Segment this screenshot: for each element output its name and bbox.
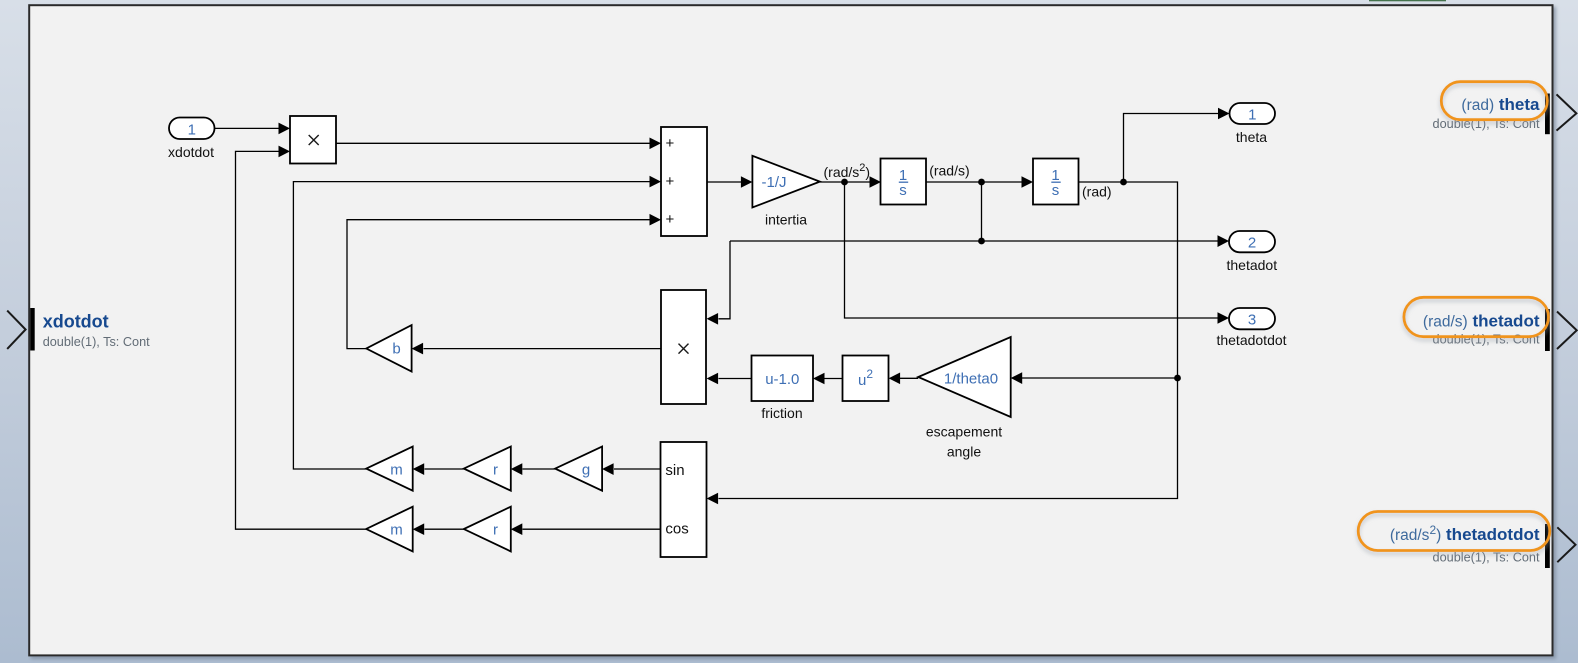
arrowhead into outport 1: [1218, 108, 1230, 120]
wire: thetadot branch down: [981, 182, 983, 241]
left port marker bar xdotdot: [30, 308, 35, 351]
right port chevron theta: [1557, 94, 1577, 130]
svg-text:1/theta0: 1/theta0: [944, 371, 998, 388]
gain r: [464, 447, 511, 491]
svg-text:xdotdot: xdotdot: [43, 312, 109, 332]
arrowhead into m gain: [413, 463, 425, 475]
wire: cos-m feedback up to product input 2: [236, 151, 367, 529]
svg-text:g: g: [582, 461, 590, 478]
svg-text:(rad) theta: (rad) theta: [1461, 95, 1540, 114]
right annotation thetadotdot: [1390, 523, 1540, 565]
wire: thetadot down-left into lower product top input: [719, 241, 731, 319]
outport 2 thetadot: [1229, 231, 1275, 252]
svg-text:(rad/s) thetadot: (rad/s) thetadot: [1423, 311, 1540, 330]
wire: integrator 2 to corner and down: [719, 182, 1178, 499]
svg-text:1: 1: [1248, 107, 1256, 124]
label escapement angle: [926, 424, 1002, 460]
right port bar thetadot: [1545, 309, 1550, 351]
svg-text:sin: sin: [665, 462, 684, 479]
orange ellipse theta: [1441, 82, 1547, 120]
wire: thetadot row to outport 2: [730, 240, 1218, 242]
svg-text:double(1), Ts: Cont: double(1), Ts: Cont: [1433, 333, 1540, 347]
svg-text:cos: cos: [665, 521, 688, 538]
arrowhead into lower product bottom input: [707, 373, 719, 385]
svg-text:(rad/s): (rad/s): [929, 163, 969, 179]
arrowhead into integrator 2: [1022, 176, 1034, 188]
orange ellipse thetadot: [1404, 297, 1549, 336]
svg-text:angle: angle: [947, 444, 981, 460]
wire: u2 to u-1.0: [825, 378, 843, 380]
wire: r gain to m gain: [425, 468, 464, 470]
node rad/s after integrator 1: [978, 179, 985, 186]
sum block: [661, 127, 707, 236]
arrowhead into sum input 1: [650, 138, 662, 150]
green bar (top edge artifact): [1369, 0, 1446, 1]
svg-text:r: r: [493, 522, 498, 539]
wire: sin output to g gain: [614, 468, 661, 470]
svg-text:m: m: [390, 461, 403, 478]
orange ellipse thetadotdot: [1358, 512, 1550, 551]
right port chevron thetadot: [1557, 312, 1577, 350]
svg-text:(rad/s2) thetadotdot: (rad/s2) thetadotdot: [1390, 523, 1540, 544]
svg-text:(rad): (rad): [1082, 184, 1112, 200]
svg-text:m: m: [390, 522, 403, 539]
arrowhead into b gain: [412, 343, 424, 355]
svg-text:theta: theta: [1236, 129, 1267, 145]
wire: sum to gain -1/J: [707, 181, 741, 183]
gain m: [366, 447, 413, 491]
wire: sin-m feedback up to sum input 2: [293, 182, 650, 469]
wire: inport1 to product: [215, 127, 280, 129]
svg-text:r: r: [493, 461, 498, 478]
outport 3 thetadotdot: [1229, 308, 1275, 329]
left annotation xdotdot: [43, 312, 150, 349]
arrowhead into integrator 1: [870, 176, 882, 188]
svg-text:s: s: [899, 182, 907, 199]
svg-text:double(1), Ts: Cont: double(1), Ts: Cont: [43, 335, 150, 349]
integrator 1: [881, 159, 927, 205]
arrowhead into escapement gain: [1011, 372, 1023, 384]
right annotation thetadot: [1423, 311, 1540, 346]
gain g: [555, 447, 602, 491]
arrowhead into lower product top input: [707, 313, 719, 325]
svg-text:friction: friction: [761, 405, 802, 421]
right port bar theta: [1545, 94, 1550, 135]
trigonometric block sin cos: [661, 442, 707, 557]
gain m 2: [366, 507, 413, 552]
arrowhead into product input 1: [279, 123, 291, 135]
arrowhead into u2 block: [889, 373, 901, 385]
svg-text:+: +: [666, 211, 675, 228]
arrowhead into r gain 2: [511, 523, 523, 535]
svg-text:intertia: intertia: [765, 212, 807, 228]
arrowhead into outport 2: [1218, 235, 1230, 247]
arrowhead into sum input 2: [650, 176, 662, 188]
right port chevron thetadotdot: [1557, 527, 1575, 562]
product block (lower, mirrored): [661, 290, 706, 404]
wire: u-1.0 to lower product bottom input: [719, 378, 752, 380]
arrowhead into r gain: [511, 463, 523, 475]
node rad after integrator 2: [1120, 179, 1127, 186]
arrowhead into product input 2: [279, 146, 291, 158]
right port bar thetadotdot: [1545, 524, 1550, 568]
block u^2: [843, 356, 889, 402]
wire: g gain to r gain: [523, 468, 556, 470]
svg-text:escapement: escapement: [926, 424, 1002, 440]
arrowhead into gain -1/J: [741, 176, 753, 188]
arrowhead into sum input 3: [650, 214, 662, 226]
svg-text:s: s: [1052, 182, 1060, 199]
svg-text:2: 2: [1248, 235, 1256, 252]
svg-text:xdotdot: xdotdot: [168, 144, 214, 160]
arrowhead into outport 3: [1218, 312, 1230, 324]
wire: r gain 2 to m gain 2: [425, 528, 464, 530]
node rad/s2: [841, 179, 848, 186]
left port chevron: [7, 311, 25, 349]
svg-text:+: +: [666, 173, 675, 190]
wire: cos output to r gain 2: [523, 528, 661, 530]
svg-text:thetadot: thetadot: [1226, 257, 1277, 273]
wire: escapement gain to u2: [900, 377, 918, 379]
node theta to escapement: [1174, 375, 1181, 382]
svg-text:3: 3: [1248, 312, 1256, 329]
outport 1 theta: [1230, 103, 1276, 124]
wire: rad/s2 branch down to outport 3: [845, 182, 1219, 318]
svg-text:double(1), Ts: Cont: double(1), Ts: Cont: [1433, 550, 1540, 564]
svg-text:thetadotdot: thetadotdot: [1216, 332, 1286, 348]
arrowhead into u-1.0 block: [813, 373, 825, 385]
wire: b gain feedback up to sum input 3: [347, 220, 650, 349]
arrowhead into m gain 2: [413, 523, 425, 535]
wire: product to sum input 1: [336, 142, 650, 144]
node thetadot row: [978, 238, 985, 245]
integrator 2: [1033, 159, 1079, 205]
wire: rad node to escapement gain input: [1022, 377, 1178, 379]
wire: gain to integrator 1: [820, 181, 870, 183]
arrowhead into sincos block: [707, 493, 719, 505]
svg-text:b: b: [392, 341, 400, 358]
right annotation theta: [1433, 95, 1541, 131]
svg-text:1: 1: [188, 121, 196, 138]
product block (upper): [290, 116, 336, 164]
svg-text:-1/J: -1/J: [761, 174, 786, 191]
inport 1 xdotdot: [169, 118, 215, 140]
wire: theta up to outport 1: [1124, 114, 1219, 183]
svg-text:u-1.0: u-1.0: [765, 371, 799, 388]
wire: integrator 1 to integrator 2: [926, 181, 1022, 183]
svg-text:+: +: [666, 135, 675, 152]
block u-1.0 (friction): [752, 356, 814, 402]
arrowhead into g gain: [602, 463, 614, 475]
gain r 2: [464, 507, 511, 552]
gain b: [366, 325, 411, 371]
gain 1/theta0 (escapement): [918, 337, 1011, 417]
wire: lower product output to b gain: [424, 348, 662, 350]
gain -1/J (inertia): [752, 156, 820, 208]
